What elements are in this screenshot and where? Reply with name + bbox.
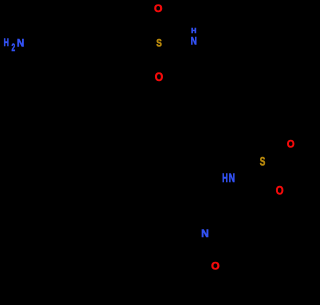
svg-text:N: N <box>201 228 209 240</box>
svg-text:H: H <box>191 27 196 35</box>
svg-text:H: H <box>4 37 10 49</box>
svg-text:O: O <box>211 261 220 273</box>
svg-text:S: S <box>260 156 266 169</box>
svg-text:N: N <box>229 173 235 185</box>
svg-text:O: O <box>287 138 295 151</box>
svg-text:2: 2 <box>12 41 16 53</box>
svg-text:N: N <box>17 37 25 50</box>
svg-text:H: H <box>222 173 228 186</box>
svg-text:N: N <box>191 35 197 47</box>
svg-text:O: O <box>155 72 164 84</box>
svg-text:S: S <box>156 37 162 50</box>
svg-text:O: O <box>276 185 284 198</box>
svg-text:O: O <box>154 3 163 15</box>
